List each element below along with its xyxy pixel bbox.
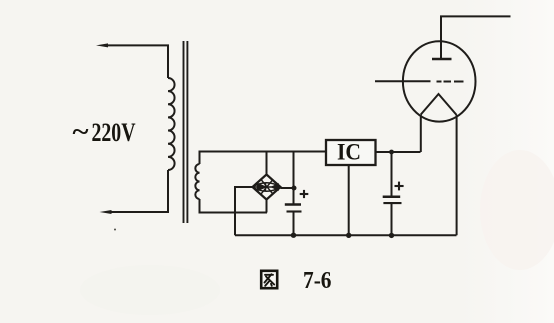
transformer primary winding [168,78,175,170]
junction dot C2 to bottom rail [389,233,394,238]
wire: bridge left vertex to bottom rail [235,187,253,235]
AC input arrow (top terminal) [96,43,108,47]
capacitor C2 plates [383,196,401,199]
paper speck [114,229,116,231]
bridge rectifier D (diamond outline) [253,175,281,200]
wire: primary bottom lead [106,170,168,212]
wire: IC ground lead [348,165,350,235]
transformer core (two bars) [183,41,185,223]
wire: secondary top lead / positive top rail to IC [200,152,327,165]
caption character 图 [261,271,277,288]
wire: secondary bottom lead to bridge bottom vertex [200,199,268,213]
svg-text:220V: 220V [92,118,136,147]
bridge rectifier internal diodes [253,180,281,195]
AC input arrow (bottom terminal) [100,210,112,214]
capacitor C1 plates [285,203,301,206]
junction dot IC ground on bottom rail [346,233,351,238]
wire: heater right pin to bottom rail [456,115,458,235]
transformer secondary winding [195,164,199,199]
svg-text:IC: IC [337,140,361,165]
anode plate bar [432,58,452,60]
grid lead (solid) [375,80,431,82]
polarity + of C2 [395,182,404,191]
node A junction dot [292,186,297,191]
heater filament V shape [421,94,457,115]
wire: IC output rail to tube heater pin [376,151,421,153]
wire: node B vertical through capacitor C2 [391,152,393,197]
svg-text:~: ~ [73,117,90,146]
node B junction dot [389,150,394,155]
junction dot C1 to bottom rail [291,233,296,238]
svg-text:7-6: 7-6 [303,268,332,294]
regulator IC U1 (box) [326,140,376,165]
wire: top rail to bridge top vertex [266,152,268,175]
wire: bridge right vertex to node A [281,187,294,189]
grid (dashed segments) [437,81,442,83]
wire: primary top lead [104,45,168,78]
wire: anode lead to top [441,16,511,59]
wire: bottom rail (negative) [235,234,457,236]
wire: bridge bottom vertex down [266,200,268,213]
polarity + of C1 [300,190,309,198]
wire: heater left pin [420,115,422,153]
wire: node A vertical through capacitor C1 [293,152,295,204]
electron tube V (envelope) [403,41,476,121]
